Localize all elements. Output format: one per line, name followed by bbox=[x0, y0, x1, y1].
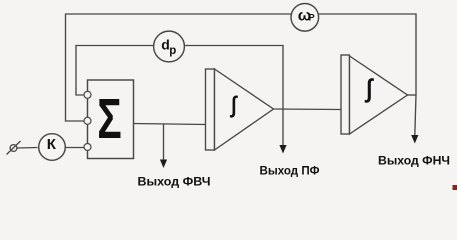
svg-text:p: p bbox=[169, 45, 176, 57]
svg-text:Σ: Σ bbox=[97, 87, 121, 150]
svg-text:Выход ПФ: Выход ПФ bbox=[260, 164, 320, 178]
svg-text:Выход ФНЧ: Выход ФНЧ bbox=[378, 154, 450, 168]
svg-text:P: P bbox=[309, 13, 315, 23]
svg-text:К: К bbox=[47, 136, 57, 153]
svg-text:Выход ФВЧ: Выход ФВЧ bbox=[138, 175, 211, 189]
